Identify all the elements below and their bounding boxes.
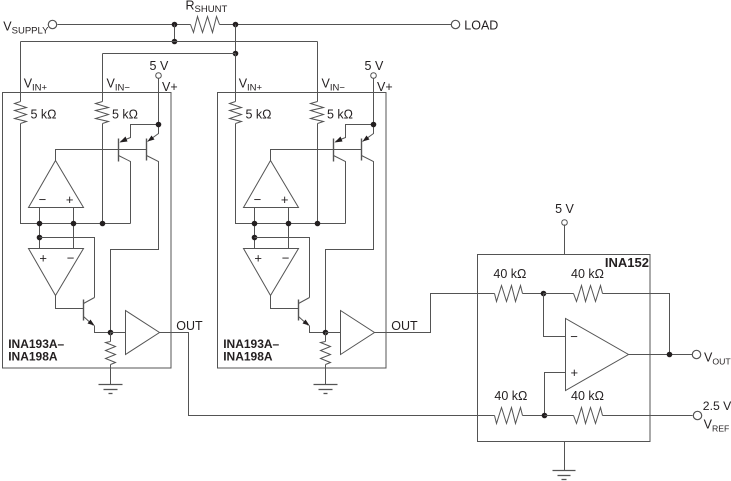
svg-text:OUT: OUT	[391, 319, 418, 333]
svg-text:+: +	[39, 251, 47, 266]
svg-text:5 V: 5 V	[365, 59, 384, 73]
op-amp A4	[244, 161, 299, 208]
wire VIN+ node rail	[21, 124, 131, 224]
svg-text:5 kΩ: 5 kΩ	[327, 108, 353, 122]
resistor R4 40k bottom-right	[545, 415, 574, 417]
wire A2 output	[56, 296, 84, 309]
svg-text:V+: V+	[162, 80, 178, 94]
wire A4 noninverting input	[288, 208, 290, 249]
node 5V supply block 2	[371, 73, 377, 79]
junction output node	[108, 330, 114, 336]
node VREF terminal 2.5V	[693, 411, 701, 419]
wire A1 inverting input	[39, 208, 41, 249]
wire block1 OUT to INA152 lower input	[160, 333, 495, 416]
transistor Q4	[333, 139, 335, 162]
wire to VREF	[603, 415, 693, 417]
svg-text:2.5 V: 2.5 V	[703, 399, 731, 413]
wire	[317, 42, 319, 93]
svg-text:+: +	[281, 192, 289, 207]
resistor RSHUNT	[191, 17, 220, 33]
svg-text:40 kΩ: 40 kΩ	[571, 389, 604, 403]
svg-text:5 kΩ: 5 kΩ	[31, 108, 57, 122]
resistor R3 40k bottom-left	[495, 408, 523, 424]
op-amp A1	[29, 161, 84, 208]
svg-text:−: −	[570, 329, 578, 344]
wire inverting input	[544, 294, 566, 337]
wire Q6 collector rail	[255, 238, 310, 298]
transistor Q5	[361, 139, 363, 161]
wire A1 noninverting input	[73, 208, 75, 249]
resistor output block 2	[325, 333, 327, 342]
junction on supply rail left of RSHUNT	[172, 22, 178, 28]
wire node B horizontal	[103, 53, 236, 55]
wire	[564, 225, 566, 255]
node 5V supply block 1	[156, 73, 162, 79]
transistor Q6	[298, 300, 300, 321]
junction	[71, 221, 77, 227]
wire	[20, 42, 22, 93]
op-amp U3 INA152	[566, 319, 629, 391]
wire	[174, 25, 176, 42]
wire A5 output	[271, 296, 299, 309]
svg-text:V+: V+	[377, 80, 393, 94]
wire node A horizontal	[21, 41, 318, 43]
junction output	[667, 352, 673, 358]
transistor Q2	[146, 139, 148, 161]
svg-text:5 kΩ: 5 kΩ	[246, 108, 272, 122]
wire	[235, 25, 237, 54]
svg-text:+: +	[571, 365, 579, 380]
ground INA152	[564, 442, 566, 471]
node VOUT terminal	[692, 350, 700, 358]
svg-text:INA198A: INA198A	[223, 350, 273, 364]
resistor 5k input block 1 plus	[15, 102, 27, 124]
svg-text:VSUPPLY: VSUPPLY	[3, 20, 49, 37]
junction on supply rail right of RSHUNT	[233, 22, 239, 28]
junction	[37, 221, 43, 227]
op-amp A2	[29, 249, 84, 296]
INA193A block 1 outline	[3, 93, 172, 369]
ground	[325, 369, 327, 385]
svg-text:LOAD: LOAD	[464, 18, 498, 32]
svg-text:−: −	[254, 192, 262, 207]
svg-text:5 V: 5 V	[150, 59, 169, 73]
junction emitters V+	[371, 122, 377, 128]
svg-text:40 kΩ: 40 kΩ	[494, 389, 527, 403]
resistor 5k input block 1 minus	[96, 102, 109, 124]
svg-text:+: +	[66, 192, 74, 207]
wire feedback to output	[603, 294, 670, 355]
wire A1 output to bases	[56, 150, 147, 161]
svg-text:VOUT: VOUT	[704, 351, 731, 367]
ground	[110, 369, 112, 385]
svg-text:VIN−: VIN−	[322, 77, 346, 94]
svg-text:VIN+: VIN+	[24, 77, 48, 94]
node LOAD terminal	[451, 20, 459, 28]
junction inverting node	[541, 291, 547, 297]
wire VIN- node	[317, 124, 319, 224]
INA152 block outline	[478, 255, 651, 442]
junction	[315, 221, 321, 227]
wire Q3 collector rail	[40, 238, 95, 298]
wire A4 output to bases	[271, 150, 362, 161]
wire noninverting input	[545, 373, 566, 416]
wire	[220, 24, 452, 26]
op-amp A5	[244, 249, 299, 296]
wire V+	[373, 79, 375, 125]
wire	[235, 54, 237, 93]
wire block2 OUT to INA152 upper input	[375, 294, 495, 333]
svg-text:−: −	[282, 251, 290, 266]
wire	[317, 93, 319, 102]
wire VIN+ node rail	[236, 124, 346, 224]
node VSUPPLY terminal	[48, 20, 56, 28]
svg-text:VIN−: VIN−	[107, 77, 131, 94]
junction	[252, 235, 258, 241]
svg-text:5 kΩ: 5 kΩ	[112, 108, 138, 122]
svg-text:−: −	[67, 251, 75, 266]
junction	[100, 221, 106, 227]
resistor R1 40k top-left	[495, 286, 523, 302]
svg-text:−: −	[39, 192, 47, 207]
svg-text:RSHUNT: RSHUNT	[186, 0, 228, 15]
resistor 5k input block 2 minus	[311, 102, 324, 124]
svg-text:VIN+: VIN+	[239, 77, 263, 94]
junction	[252, 221, 258, 227]
svg-text:40 kΩ: 40 kΩ	[493, 267, 526, 281]
buffer amp A6	[326, 332, 341, 334]
junction	[37, 235, 43, 241]
transistor Q1	[118, 139, 120, 162]
svg-text:VREF: VREF	[704, 418, 730, 434]
wire	[102, 93, 104, 102]
wire	[20, 93, 22, 102]
wire V+	[158, 79, 160, 125]
junction	[286, 221, 292, 227]
junction noninverting node	[542, 413, 548, 419]
resistor 5k input block 2 plus	[230, 102, 242, 124]
resistor output block 1	[110, 333, 112, 342]
wire output	[629, 354, 693, 356]
wire	[102, 54, 104, 93]
svg-text:INA152: INA152	[605, 255, 649, 270]
resistor R2 40k top-right feedback	[544, 293, 574, 295]
wire	[58, 24, 191, 26]
wire VIN- node	[102, 124, 104, 224]
junction node A	[172, 39, 178, 45]
transistor Q3	[83, 300, 85, 321]
svg-text:+: +	[254, 251, 262, 266]
junction node B	[233, 51, 239, 57]
node 5V supply INA152	[562, 220, 568, 226]
INA193A block 2 outline	[218, 93, 387, 369]
wire	[235, 93, 237, 102]
junction output node	[323, 330, 329, 336]
svg-text:5 V: 5 V	[555, 202, 574, 216]
svg-text:INA198A: INA198A	[8, 350, 58, 364]
junction emitters V+	[156, 122, 162, 128]
wire A4 inverting input	[254, 208, 256, 249]
svg-text:40 kΩ: 40 kΩ	[571, 267, 604, 281]
svg-text:OUT: OUT	[176, 319, 203, 333]
buffer amp A3	[111, 332, 126, 334]
